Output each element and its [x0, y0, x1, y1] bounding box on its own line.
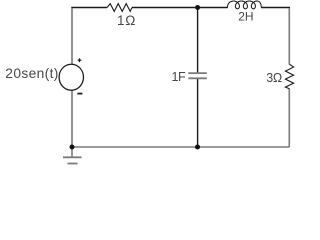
svg-text:3Ω: 3Ω	[266, 71, 282, 85]
svg-text:1Ω: 1Ω	[117, 13, 136, 28]
svg-text:2H: 2H	[238, 10, 253, 24]
svg-text:1F: 1F	[172, 70, 186, 84]
svg-text:20sen(t): 20sen(t)	[5, 66, 58, 81]
